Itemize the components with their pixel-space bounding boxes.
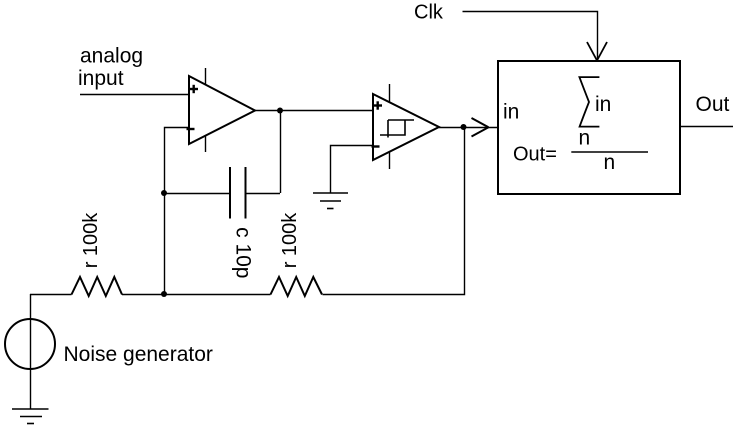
fraction bar	[571, 151, 648, 153]
capacitor C1	[230, 167, 246, 219]
noise generator source V1	[5, 294, 55, 409]
node U1 output junction	[277, 108, 283, 114]
wire feedback node down to resistor net	[164, 193, 166, 294]
op-amp U1 positive supply pin	[205, 68, 207, 85]
ground G1 (noise generator)	[12, 409, 49, 424]
wire noise source to resistor R1	[30, 294, 72, 296]
svg-text:Noise generator: Noise generator	[64, 343, 213, 366]
comparator U2 hysteresis symbol	[380, 120, 414, 138]
node feedback junction A	[161, 190, 167, 196]
comparator U2 negative supply pin	[389, 153, 391, 170]
svg-text:analog: analog	[80, 44, 143, 67]
node B junction	[161, 291, 167, 297]
wire resistor R1 to node B	[122, 294, 164, 296]
resistor R2	[271, 277, 323, 296]
svg-text:n: n	[579, 127, 591, 150]
svg-text:Clk: Clk	[414, 2, 444, 24]
svg-text:c 10p: c 10p	[232, 227, 255, 278]
averager block U3	[498, 61, 680, 194]
wire resistor R2 to comparator output branch	[323, 128, 465, 295]
svg-text:Out=: Out=	[513, 144, 557, 166]
wire capacitor C1 right plate to output branch	[246, 193, 281, 195]
svg-text:Out: Out	[696, 93, 730, 116]
wire U1 minus input to feedback node	[165, 128, 190, 194]
ground G2 (comparator reference)	[313, 193, 348, 209]
summation sigma symbol	[579, 77, 599, 127]
svg-text:n: n	[604, 151, 616, 174]
comparator U2 positive supply pin	[389, 84, 391, 102]
svg-text:r 100k: r 100k	[80, 212, 102, 269]
arrow signal-flow chevron into block	[472, 118, 489, 137]
svg-text:in: in	[595, 93, 611, 116]
wire comparator U2 minus input to ground	[331, 146, 374, 194]
node comparator output junction	[461, 124, 467, 130]
op-amp U1 negative supply pin	[205, 136, 207, 152]
op-amp U1 plus input marking	[190, 85, 199, 93]
op-amp U1 minus input marking	[187, 128, 195, 130]
wire feedback node to capacitor C1 left plate	[164, 193, 230, 195]
svg-text:in: in	[503, 101, 519, 124]
wire Clk to averager block	[463, 12, 598, 60]
comparator U2	[372, 84, 440, 169]
op-amp U1	[187, 68, 256, 152]
comparator U2 minus input marking	[372, 145, 380, 147]
arrowhead Clk into block	[587, 42, 607, 61]
label analog input	[78, 44, 143, 90]
wire node B to resistor R2	[164, 294, 271, 296]
svg-text:r 100k: r 100k	[279, 212, 301, 269]
resistor R1	[72, 277, 123, 296]
svg-text:input: input	[78, 67, 124, 90]
wire U1 output junction down to capacitor right plate	[280, 111, 282, 194]
wire averager block output	[680, 126, 733, 128]
wire U1 output to comparator U2 + input	[255, 110, 373, 112]
comparator U2 plus input marking	[374, 101, 383, 109]
wire comparator U2 output to averager block input	[439, 127, 498, 129]
wire analog input to op-amp U1 + input	[80, 94, 189, 96]
